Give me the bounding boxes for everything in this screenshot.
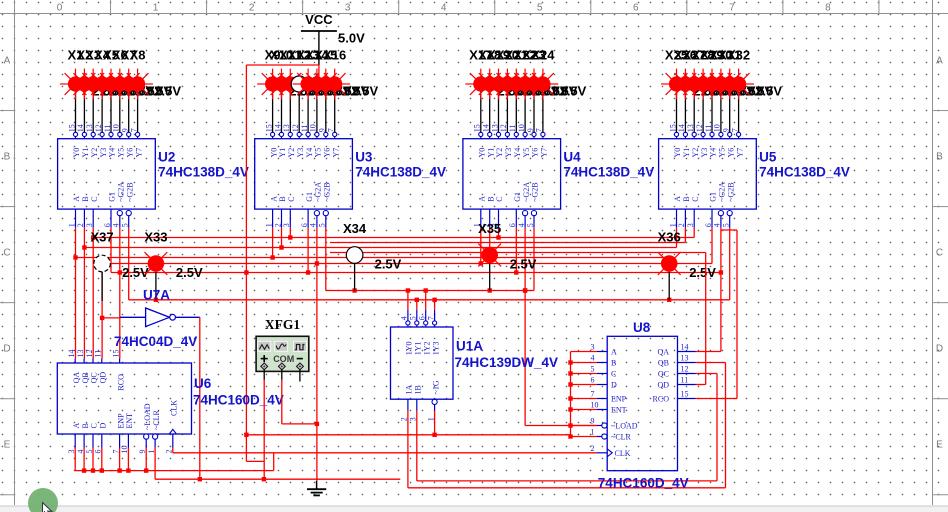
probe X14 [302,48,361,100]
wire XFG1 plus terminal [263,369,265,379]
svg-text:6: 6 [508,223,517,227]
svg-text:74HC160D_4V: 74HC160D_4V [193,393,284,408]
probe X3 [78,48,137,100]
svg-text:5: 5 [537,3,543,14]
probe X19 [483,48,542,100]
svg-text:Y6: Y6 [323,148,332,158]
probe X7 [113,48,172,100]
svg-text:Y6: Y6 [726,148,735,158]
svg-text:11: 11 [94,350,103,358]
svg-text:9: 9 [591,417,595,426]
decoder U2 74HC138D_4V [58,124,249,227]
wire VCC rail bottom jog [246,460,264,462]
svg-text:1A: 1A [405,385,414,395]
wire reset row [155,477,400,481]
wire U6 preset bus row [75,468,274,472]
wire preset bus corner up [273,453,275,471]
svg-text:1: 1 [668,223,677,227]
svg-text:Y1: Y1 [486,148,495,158]
svg-text:Y3: Y3 [700,148,709,158]
wires U1A select pins up [408,291,435,310]
svg-text:G1: G1 [709,192,718,202]
svg-text:U8: U8 [633,320,651,335]
probe X34 [343,221,402,271]
svg-text:Y5: Y5 [314,148,323,158]
svg-text:B: B [81,196,90,201]
svg-text:6: 6 [300,223,309,227]
wire U6 ~CLR down [154,448,156,480]
svg-text:Y6: Y6 [125,148,134,158]
svg-text:1B: 1B [414,385,423,394]
decoder U3 74HC138D_4V [255,124,446,227]
wire enable row ~CLR net [246,434,570,436]
wires probes X17-X24 to decoder U4 pins [481,91,543,132]
svg-text:~G2B: ~G2B [531,182,540,201]
svg-text:A: A [936,56,943,67]
svg-text:Y7: Y7 [735,148,744,158]
wire U1A 1A loop to U8 QB [408,363,726,488]
svg-text:2.5V: 2.5V [154,84,181,99]
svg-text:1Y0: 1Y0 [405,342,414,356]
probe X12 [288,48,343,99]
wire select row upper [326,288,534,292]
probe X28 [688,48,747,100]
svg-text:C: C [90,423,99,428]
svg-text:D: D [611,381,617,390]
svg-text:74HC138D_4V: 74HC138D_4V [759,165,850,180]
wire probe X33 stub [155,272,157,300]
wire VCC horizontal [246,64,319,66]
svg-text:1Y2: 1Y2 [422,342,431,356]
svg-text:~1G: ~1G [431,380,440,394]
probe X27 [679,48,738,100]
svg-text:6: 6 [418,316,427,320]
svg-text:Y3: Y3 [504,148,513,158]
svg-text:2.5V: 2.5V [560,84,587,99]
svg-text:Y2: Y2 [287,148,296,158]
wire probe X34 stub [354,263,356,290]
svg-text:3: 3 [591,343,595,352]
svg-text:CLK: CLK [615,449,631,458]
svg-text:3: 3 [85,223,94,227]
top ruler [0,0,948,14]
svg-text:QB: QB [81,372,90,383]
svg-text:~G2B: ~G2B [125,182,134,201]
svg-text:14: 14 [67,350,76,358]
svg-text:7: 7 [729,3,735,14]
svg-text:A: A [72,423,81,429]
probe X32 [723,48,782,100]
svg-text:4: 4 [591,354,595,363]
probe X31 [714,48,773,100]
svg-text:U3: U3 [355,150,373,165]
svg-text:Y7: Y7 [134,148,143,158]
svg-text:4: 4 [309,223,318,227]
svg-text:14: 14 [681,343,689,352]
svg-text:74HC138D_4V: 74HC138D_4V [563,165,654,180]
svg-text:Y1: Y1 [682,148,691,158]
svg-text:C: C [90,196,99,201]
svg-text:Y3: Y3 [296,148,305,158]
svg-text:ENT: ENT [611,406,627,415]
probe X21 [501,48,560,100]
wire net QC column [92,238,94,359]
probe X4 [87,48,146,100]
svg-text:13: 13 [681,354,689,363]
svg-text:4: 4 [400,316,409,320]
svg-text:74HC138D_4V: 74HC138D_4V [158,165,249,180]
svg-text:B: B [611,359,616,368]
wires probes X1-X8 to decoder U2 pins [76,91,138,132]
wire enable row to U8 ~LOAD [523,288,597,425]
svg-text:ENP: ENP [116,413,125,429]
probe X11 [275,48,334,100]
svg-text:6: 6 [103,223,112,227]
svg-text:~LOAD: ~LOAD [611,422,638,431]
svg-text:A: A [478,196,487,202]
svg-text:1Y1: 1Y1 [414,342,423,356]
wire U1A ~1G to enable row [432,411,436,438]
probe X36 [658,230,717,280]
svg-text:G1: G1 [108,192,117,202]
probe X1 [60,48,119,100]
probe X15 [310,48,369,100]
svg-text:RCO: RCO [116,374,125,391]
svg-text:QB: QB [658,359,669,368]
svg-text:Y0: Y0 [72,148,81,158]
wire probe X35 stub [489,263,491,290]
wire VCC vertical rail [244,65,248,461]
svg-text:2.5V: 2.5V [375,256,402,271]
svg-text:B: B [81,423,90,428]
power VCC 5.0V [301,12,365,65]
svg-text:U7A: U7A [143,288,170,303]
probe X33 [144,230,203,280]
svg-text:1: 1 [67,223,76,227]
wire probe X37 stub [101,272,103,301]
wire bus row y2 [330,242,685,244]
svg-text:2: 2 [677,223,686,227]
decoder U4 74HC138D_4V [463,124,654,227]
svg-text:U2: U2 [158,150,175,165]
wire select row lower [129,298,730,302]
ground [307,481,326,496]
svg-text:A: A [4,56,11,67]
svg-text:QD: QD [657,381,669,390]
svg-text:QC: QC [658,370,669,379]
svg-text:2.5V: 2.5V [176,265,203,280]
probe X25 [661,48,720,100]
svg-text:Y0: Y0 [269,148,278,158]
svg-text:CLK: CLK [170,400,179,416]
cursor highlight [28,488,58,512]
svg-text:74HC138D_4V: 74HC138D_4V [355,165,446,180]
wire U1A 1B loop to U8 QC [417,374,717,481]
bottom scrollbar strip [0,506,948,512]
decoder U5 74HC138D_4V [659,124,850,227]
wires probes X9-X16 to decoder U3 pins [273,91,335,132]
svg-text:7: 7 [591,390,595,399]
svg-text:5: 5 [591,365,595,374]
svg-text:Y1: Y1 [81,148,90,158]
svg-text:10: 10 [591,401,599,410]
wire U4 ~G2A to U8 load row [524,228,526,426]
svg-text:11: 11 [681,376,689,385]
wire bus row y6 [102,263,712,265]
probe X13 [293,48,352,100]
svg-text:5: 5 [121,223,130,227]
svg-text:Y5: Y5 [718,148,727,158]
wire U8 QB stub [696,362,726,364]
svg-text:~G2A: ~G2A [522,182,531,202]
svg-text:6: 6 [591,376,595,385]
wires U3 inputs to bus [270,228,325,291]
svg-text:X16: X16 [323,48,346,63]
svg-text:U1A: U1A [456,339,483,354]
svg-text:1: 1 [153,3,159,14]
svg-text:Y0: Y0 [673,148,682,158]
svg-text:Y1: Y1 [278,148,287,158]
svg-text:4: 4 [517,223,526,227]
svg-text:74HC04D_4V: 74HC04D_4V [114,334,197,349]
svg-text:Y3: Y3 [99,148,108,158]
svg-text:~LOAD: ~LOAD [143,403,152,430]
probe X24 [528,48,587,100]
svg-text:COM: COM [273,354,294,364]
svg-text:Y5: Y5 [117,148,126,158]
wires U5 inputs to bus [677,228,730,300]
svg-text:2.5V: 2.5V [351,84,378,99]
wire bus row y3 [84,247,676,249]
counter U6 74HC160D_4V [57,350,284,454]
probe X9 [257,48,316,100]
wires U4 inputs to bus [479,228,534,291]
probe X29 [697,48,756,100]
svg-text:74HC139DW_4V: 74HC139DW_4V [455,355,559,370]
svg-text:A: A [269,196,278,202]
svg-text:B: B [4,152,11,163]
svg-text:ENT: ENT [125,413,134,429]
counter U8 74HC160D_4V [591,320,696,491]
svg-text:Y0: Y0 [478,148,487,158]
svg-text:G1: G1 [305,192,314,202]
probe X22 [510,48,569,100]
svg-text:2.5V: 2.5V [689,265,716,280]
wire inverter input [102,317,120,319]
probe X6 [104,48,163,100]
wire bus row y5 [76,257,670,259]
svg-text:X32: X32 [727,48,750,63]
probe X37 [91,230,150,280]
svg-text:Y2: Y2 [691,148,700,158]
svg-text:2.5V: 2.5V [755,84,782,99]
wires U6 bottom pins to bus [75,448,146,471]
svg-text:12: 12 [85,350,94,358]
svg-text:13: 13 [76,350,85,358]
probe X18 [474,48,533,100]
svg-text:A: A [72,196,81,202]
probe X8 [122,48,181,100]
wire VCC stub into probe cluster [318,65,320,77]
svg-text:~G2B: ~G2B [323,182,332,201]
probe X20 [492,48,551,100]
svg-text:B: B [936,152,943,163]
probe X30 [706,48,765,100]
svg-text:0: 0 [57,3,63,14]
probe X2 [69,48,128,100]
wire U8 QA up to bus [696,273,721,352]
svg-text:~G2A: ~G2A [718,182,727,202]
svg-text:5.0V: 5.0V [338,31,365,46]
wire inverter output vertical [198,317,202,481]
svg-text:X24: X24 [531,48,555,63]
svg-text:12: 12 [681,365,689,374]
svg-text:1: 1 [591,428,595,437]
wire probe X36 stub [668,272,670,300]
svg-text:D: D [936,344,943,355]
wire bus row y1 [93,237,694,239]
svg-text:C: C [3,248,10,259]
wire clock row [173,452,597,454]
wire net RCO column [119,273,121,359]
wires U2 inputs to bus [73,228,128,300]
svg-text:7: 7 [426,316,435,320]
svg-text:Y4: Y4 [709,148,718,158]
svg-text:Y7: Y7 [540,148,549,158]
svg-text:X37: X37 [91,230,114,245]
svg-text:X34: X34 [343,221,367,236]
svg-text:Y5: Y5 [522,148,531,158]
wire XFG1 minus terminal [299,369,301,381]
svg-text:1: 1 [264,223,273,227]
svg-text:VCC: VCC [305,12,333,27]
wires probes X25-X32 to decoder U5 pins [677,91,739,132]
wire U8 QD up to bus [696,253,706,385]
wire XFG1 COM terminal [281,369,283,379]
svg-text:U4: U4 [563,150,581,165]
wire U3 ~G2A to ground rail [315,228,319,481]
svg-text:A: A [673,196,682,202]
wire net QD column [100,264,104,359]
svg-text:B: B [278,196,287,201]
svg-text:5: 5 [526,223,535,227]
svg-text:~G2A: ~G2A [117,182,126,202]
svg-text:15: 15 [681,390,689,399]
svg-text:Y4: Y4 [108,148,117,158]
svg-text:3: 3 [345,3,351,14]
svg-text:A: A [611,348,617,357]
wire net QA column [75,258,77,359]
svg-text:3: 3 [282,223,291,227]
svg-text:C: C [495,196,504,201]
svg-text:U5: U5 [759,150,777,165]
svg-text:6: 6 [633,3,639,14]
svg-text:QA: QA [657,348,669,357]
svg-text:E: E [936,440,943,451]
svg-text:4: 4 [441,3,447,14]
svg-text:6: 6 [704,223,713,227]
svg-text:X36: X36 [658,230,681,245]
svg-text:QC: QC [90,372,99,383]
svg-text:~G2A: ~G2A [314,182,323,202]
svg-text:C: C [691,196,700,201]
probe X10 [266,48,325,100]
wire bus row y4 [330,252,706,254]
svg-text:5: 5 [318,223,327,227]
wire U8 RCO up and jog [696,230,738,399]
probe X26 [670,48,729,100]
decoder U1A 74HC139DW_4V [391,310,559,422]
op-amp U7A inverter 74HC04D_4V [114,288,200,350]
svg-text:2: 2 [273,223,282,227]
svg-text:Y4: Y4 [305,148,314,158]
wire bus row y7 [111,272,721,274]
svg-text:RCO: RCO [653,395,670,404]
svg-text:C: C [936,248,943,259]
svg-text:5: 5 [409,316,418,320]
wire U8 QC stub [696,373,718,375]
svg-text:G1: G1 [513,192,522,202]
svg-text:74HC160D_4V: 74HC160D_4V [598,476,689,491]
svg-text:Y2: Y2 [90,148,99,158]
svg-text:5: 5 [722,223,731,227]
svg-text:2.5V: 2.5V [510,256,537,271]
right ruler [933,0,948,505]
svg-text:E: E [4,440,11,451]
wire U8 input feed column [568,352,597,439]
svg-text:15: 15 [111,350,120,358]
wire U6 CLK down [172,448,174,453]
svg-text:Y4: Y4 [513,148,522,158]
left ruler [0,0,15,505]
svg-text:D: D [3,344,10,355]
function generator XFG1 [256,317,309,372]
svg-text:3: 3 [686,223,695,227]
svg-text:~G2B: ~G2B [726,182,735,201]
probe X5 [96,48,155,100]
svg-text:4: 4 [112,223,121,227]
svg-text:X35: X35 [478,221,501,236]
svg-text:2: 2 [249,3,255,14]
svg-text:XFG1: XFG1 [265,317,300,332]
probe X17 [465,48,524,100]
probe X16 [319,48,378,100]
svg-text:X8: X8 [130,48,146,63]
svg-text:B: B [486,196,495,201]
svg-text:Y6: Y6 [531,148,540,158]
svg-text:2: 2 [591,444,595,453]
probe X35 [478,221,537,271]
svg-text:QA: QA [72,372,81,384]
svg-text:1Y3: 1Y3 [431,342,440,356]
svg-text:X33: X33 [144,230,167,245]
svg-text:Y7: Y7 [331,148,340,158]
svg-text:~CLR: ~CLR [611,433,632,442]
svg-text:C: C [287,196,296,201]
probe X23 [519,48,578,100]
svg-text:4: 4 [713,223,722,227]
svg-text:2.5V: 2.5V [122,265,149,280]
svg-text:B: B [682,196,691,201]
svg-text:QD: QD [99,372,108,384]
svg-text:ENP: ENP [611,395,627,404]
svg-text:D: D [99,423,108,429]
svg-text:~CLR: ~CLR [152,409,161,430]
wire net QB column [83,248,85,359]
svg-text:Y2: Y2 [495,148,504,158]
svg-text:2: 2 [76,223,85,227]
svg-text:U6: U6 [194,376,212,391]
